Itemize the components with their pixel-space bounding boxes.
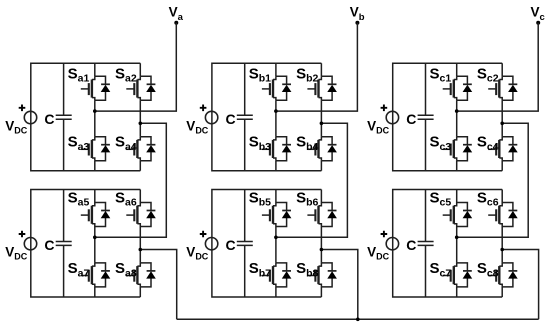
wire: cascade link (Sa2/Sa4 midpoint to Sa5/Sa7 midpoint)	[95, 123, 167, 237]
junction terminal Va	[174, 21, 178, 25]
wire: phase a output (top module Sa1/Sa3 midpoint to Va)	[95, 23, 177, 111]
switch Sc8 anti-parallel diode	[502, 263, 518, 287]
polarity + mark	[19, 105, 26, 112]
switch Sa2 IGBT	[126, 76, 140, 100]
wire: phase a return (Sa6/Sa8 midpoint down to neutral bus)	[140, 250, 176, 320]
wire: left leg rail of module b5-b8	[275, 190, 277, 298]
junction Sc1-Sc3 midpoint	[455, 109, 459, 113]
capacitor C (phase b)	[237, 242, 253, 246]
switch Sb8 anti-parallel diode	[321, 263, 337, 287]
switch Sa8 IGBT	[126, 263, 140, 287]
wire: right leg rail of module c5-c8	[501, 190, 503, 298]
DC voltage source VDC (phase b)	[205, 111, 217, 123]
DC voltage source VDC (phase c)	[386, 111, 398, 123]
capacitor C (phase b)	[237, 115, 253, 119]
junction Sb5-Sb7 midpoint	[274, 236, 278, 240]
wire: left leg rail of module c1-c4	[456, 63, 458, 171]
DC voltage source VDC (phase a)	[24, 111, 36, 123]
switch Sa7 anti-parallel diode	[95, 263, 111, 287]
switch Sa4 anti-parallel diode	[140, 137, 156, 161]
wire: capacitor rail (phase b)	[244, 63, 246, 171]
wire: capacitor rail (phase a)	[63, 190, 65, 298]
wire: left leg rail of module c5-c8	[456, 190, 458, 298]
wire: cascade link (Sb2/Sb4 midpoint to Sb5/Sb7 midpoint)	[276, 123, 348, 237]
switch Sa1 anti-parallel diode	[95, 76, 111, 100]
wire: phase c output (top module Sc1/Sc3 midpoint to Vc)	[457, 23, 539, 111]
wire: capacitor rail (phase c)	[425, 63, 427, 171]
polarity + mark	[381, 231, 388, 238]
switch Sc5 anti-parallel diode	[457, 203, 473, 227]
junction terminal Vc	[536, 21, 540, 25]
H-bridge module C (Sc1..Sc4) enclosure box	[393, 63, 503, 171]
H-bridge module B (Sb1..Sb4) enclosure box	[212, 63, 322, 171]
wire: cascade link (Sc2/Sc4 midpoint to Sc5/Sc7 midpoint)	[457, 123, 529, 237]
junction neutral bus junction (phase b)	[356, 318, 360, 322]
switch Sb4 IGBT	[307, 137, 321, 161]
svg-text:C: C	[44, 111, 54, 127]
wire: right leg rail of module b1-b4	[320, 63, 322, 171]
wire: capacitor rail (phase b)	[244, 190, 246, 298]
switch Sb3 IGBT	[262, 137, 276, 161]
junction Sc2-Sc4 midpoint	[500, 122, 504, 126]
wire: neutral bus connecting phase returns	[177, 318, 539, 320]
switch Sb5 anti-parallel diode	[276, 203, 292, 227]
wire: capacitor rail (phase c)	[425, 190, 427, 298]
junction Sa6-Sa8 midpoint	[139, 248, 143, 252]
svg-text:C: C	[44, 237, 54, 253]
switch Sa6 IGBT	[126, 203, 140, 227]
svg-text:C: C	[226, 237, 236, 253]
switch Sa6 anti-parallel diode	[140, 203, 156, 227]
wire: phase b return (Sb6/Sb8 midpoint down to neutral bus)	[321, 250, 357, 320]
wire: left leg rail of module a5-a8	[94, 190, 96, 298]
switch Sa3 IGBT	[81, 137, 95, 161]
junction Sb1-Sb3 midpoint	[274, 109, 278, 113]
wire: right leg rail of module b5-b8	[320, 190, 322, 298]
switch Sb5 IGBT	[262, 203, 276, 227]
DC voltage source VDC (phase a)	[24, 238, 36, 250]
switch Sb2 IGBT	[307, 76, 321, 100]
wire: left leg rail of module b1-b4	[275, 63, 277, 171]
H-bridge module C (Sc5..Sc8) enclosure box	[393, 190, 503, 298]
switch Sb1 anti-parallel diode	[276, 76, 292, 100]
capacitor C (phase a)	[56, 115, 72, 119]
capacitor C (phase c)	[418, 242, 434, 246]
switch Sc4 anti-parallel diode	[502, 137, 518, 161]
junction Sc6-Sc8 midpoint	[500, 248, 504, 252]
junction Sa1-Sa3 midpoint	[93, 109, 97, 113]
switch Sb7 IGBT	[262, 263, 276, 287]
junction Sa5-Sa7 midpoint	[93, 236, 97, 240]
switch Sc2 IGBT	[488, 76, 502, 100]
switch Sb2 anti-parallel diode	[321, 76, 337, 100]
capacitor C (phase c)	[418, 115, 434, 119]
switch Sc3 anti-parallel diode	[457, 137, 473, 161]
switch Sc5 IGBT	[443, 203, 457, 227]
capacitor C (phase a)	[56, 242, 72, 246]
switch Sb3 anti-parallel diode	[276, 137, 292, 161]
switch Sc1 anti-parallel diode	[457, 76, 473, 100]
switch Sc8 IGBT	[488, 263, 502, 287]
wire: right leg rail of module a5-a8	[139, 190, 141, 298]
wire: phase c return (Sc6/Sc8 midpoint down to neutral bus)	[502, 250, 538, 320]
H-bridge module B (Sb5..Sb8) enclosure box	[212, 190, 322, 298]
svg-text:C: C	[226, 111, 236, 127]
svg-text:C: C	[406, 111, 416, 127]
switch Sb4 anti-parallel diode	[321, 137, 337, 161]
switch Sc1 IGBT	[443, 76, 457, 100]
junction Sa2-Sa4 midpoint	[139, 122, 143, 126]
H-bridge module A (Sa5..Sa8) enclosure box	[31, 190, 141, 298]
switch Sa5 IGBT	[81, 203, 95, 227]
junction Sb6-Sb8 midpoint	[320, 248, 324, 252]
junction Sb2-Sb4 midpoint	[320, 122, 324, 126]
H-bridge module A (Sa1..Sa4) enclosure box	[31, 63, 141, 171]
wire: phase b output (top module Sb1/Sb3 midpoint to Vb)	[276, 23, 358, 111]
switch Sa4 IGBT	[126, 137, 140, 161]
wire: left leg rail of module a1-a4	[94, 63, 96, 171]
polarity + mark	[19, 231, 26, 238]
DC voltage source VDC (phase b)	[205, 238, 217, 250]
wire: capacitor rail (phase a)	[63, 63, 65, 171]
junction terminal Vb	[355, 21, 359, 25]
switch Sc2 anti-parallel diode	[502, 76, 518, 100]
wire: right leg rail of module a1-a4	[139, 63, 141, 171]
switch Sc6 anti-parallel diode	[502, 203, 518, 227]
switch Sa7 IGBT	[81, 263, 95, 287]
switch Sa1 IGBT	[81, 76, 95, 100]
switch Sc3 IGBT	[443, 137, 457, 161]
switch Sa2 anti-parallel diode	[140, 76, 156, 100]
DC voltage source VDC (phase c)	[386, 238, 398, 250]
switch Sb1 IGBT	[262, 76, 276, 100]
wire: right leg rail of module c1-c4	[501, 63, 503, 171]
switch Sb8 IGBT	[307, 263, 321, 287]
switch Sc6 IGBT	[488, 203, 502, 227]
polarity + mark	[381, 105, 388, 112]
switch Sc7 IGBT	[443, 263, 457, 287]
switch Sb7 anti-parallel diode	[276, 263, 292, 287]
junction Sc5-Sc7 midpoint	[455, 236, 459, 240]
switch Sc4 IGBT	[488, 137, 502, 161]
switch Sa3 anti-parallel diode	[95, 137, 111, 161]
switch Sa8 anti-parallel diode	[140, 263, 156, 287]
svg-text:C: C	[406, 237, 416, 253]
switch Sa5 anti-parallel diode	[95, 203, 111, 227]
polarity + mark	[200, 105, 207, 112]
switch Sb6 anti-parallel diode	[321, 203, 337, 227]
polarity + mark	[200, 231, 207, 238]
switch Sc7 anti-parallel diode	[457, 263, 473, 287]
switch Sb6 IGBT	[307, 203, 321, 227]
